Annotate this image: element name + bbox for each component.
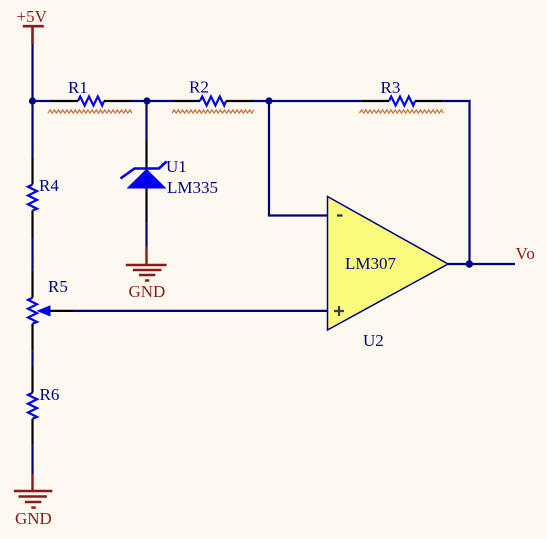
wire R6 to ground (31, 446, 33, 474)
wire R5 to R6 (31, 351, 33, 366)
resistor R3 pin 1 (362, 100, 389, 102)
wire R1 to node B (131, 100, 173, 102)
diode U1 zener cathode bar (121, 162, 167, 179)
wire U1 to ground (145, 222, 147, 247)
resistor R2 body (200, 97, 226, 106)
wire R3 to right corner (442, 100, 471, 102)
resistor R4 pin 1 (31, 158, 33, 185)
resistor R4 body (28, 185, 37, 211)
wire node C down (feedback) (268, 101, 270, 216)
resistor R1 hidden-field squiggle (48, 110, 132, 113)
wire right vertical to output node (468, 100, 470, 264)
node A junction dot (29, 97, 36, 104)
ground symbol (under U1) bars (126, 265, 167, 281)
power port +5V bar symbol (23, 26, 44, 44)
svg-text:R1: R1 (68, 78, 88, 97)
svg-text:Vo: Vo (516, 244, 536, 263)
resistor R1 pin 1 (51, 100, 78, 102)
wire feedback to op-amp inverting input (268, 214, 328, 216)
svg-text:LM335: LM335 (167, 178, 218, 197)
resistor R3 pin 2 (415, 100, 442, 102)
diode U1 body triangle (127, 169, 167, 189)
resistor R3 hidden-field squiggle (360, 110, 444, 113)
wire op-amp output to Vo (448, 263, 515, 265)
resistor R4 pin 2 (31, 211, 33, 238)
resistor R3 body (389, 97, 415, 106)
ground symbol (bottom) bars (14, 491, 53, 508)
wire +5V to node A (31, 44, 33, 158)
resistor R6 pin 2 (31, 419, 33, 446)
node C junction dot (265, 97, 272, 104)
svg-text:R3: R3 (381, 78, 401, 97)
wire node A to R1 (33, 100, 52, 102)
resistor R2 hidden-field squiggle (172, 110, 254, 113)
potentiometer R5 body (28, 298, 37, 324)
svg-text:R2: R2 (189, 78, 209, 97)
potentiometer R5 pin 2 (31, 324, 33, 351)
wire wiper to op-amp non-inverting input (73, 310, 328, 312)
resistor R1 body (78, 97, 104, 106)
op-amp U2 non-inverting input marker (334, 306, 344, 316)
resistor R6 pin 1 (31, 366, 33, 393)
svg-text:U2: U2 (363, 331, 384, 350)
svg-text:GND: GND (129, 282, 166, 301)
svg-text:+5V: +5V (17, 7, 48, 26)
op-amp U2 inverting input marker (337, 214, 343, 216)
potentiometer R5 wiper arrow (37, 305, 51, 316)
svg-text:R4: R4 (39, 176, 59, 195)
wire R5 wiper pin (50, 310, 73, 312)
resistor R2 pin 1 (173, 100, 200, 102)
resistor R6 body (28, 393, 37, 419)
node B junction dot (143, 97, 150, 104)
ground symbol (under U1) stem (145, 247, 147, 265)
op-amp U2 body (328, 197, 449, 331)
diode U1 pin 2 (145, 189, 147, 223)
wire R2 to node C to R3 (253, 100, 362, 102)
resistor R1 pin 2 (104, 100, 131, 102)
output node junction dot (466, 260, 473, 267)
svg-text:R6: R6 (40, 385, 60, 404)
svg-text:R5: R5 (48, 277, 68, 296)
svg-text:LM307: LM307 (345, 254, 397, 273)
ground symbol (bottom) stem (31, 474, 33, 491)
wire R4 to R5 (31, 238, 33, 271)
wire node B down to U1 (145, 101, 147, 140)
svg-text:U1: U1 (166, 157, 187, 176)
diode U1 pin 1 (145, 140, 147, 169)
potentiometer R5 pin 1 (31, 271, 33, 298)
svg-text:GND: GND (15, 509, 52, 528)
resistor R2 pin 2 (226, 100, 253, 102)
